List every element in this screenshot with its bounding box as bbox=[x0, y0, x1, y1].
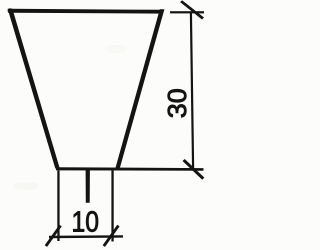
funnel right side wall bbox=[115, 9, 164, 168]
left extension line of 10 dim bbox=[57, 171, 59, 242]
svg-text:10: 10 bbox=[72, 207, 100, 239]
right extension line of 10 dim bbox=[111, 171, 113, 242]
funnel bottom edge / right extension line bbox=[56, 167, 204, 171]
corner blob top-left joint bbox=[8, 8, 13, 13]
dimension line 10 (horizontal) bbox=[49, 235, 123, 238]
background paper bbox=[0, 0, 207, 250]
svg-text:30: 30 bbox=[164, 88, 192, 118]
tick top of 30 dim bbox=[180, 0, 204, 19]
top extension line (right) bbox=[170, 11, 204, 13]
funnel left side wall bbox=[8, 9, 60, 169]
funnel top edge bbox=[9, 9, 163, 14]
tick right of 10 dim bbox=[103, 225, 120, 247]
dimension line 30 (vertical) bbox=[190, 12, 194, 169]
tick bottom of 30 dim bbox=[183, 159, 205, 180]
tick left of 10 dim bbox=[45, 225, 62, 247]
faint scan smudges bbox=[13, 182, 39, 190]
funnel outlet stem bbox=[86, 170, 90, 203]
